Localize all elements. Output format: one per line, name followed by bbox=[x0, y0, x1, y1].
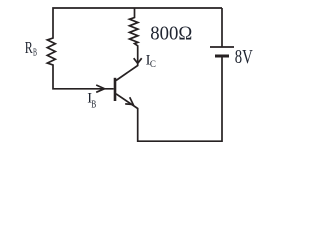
svg-text:R: R bbox=[25, 38, 33, 57]
svg-text:800Ω: 800Ω bbox=[150, 22, 192, 44]
svg-text:8V: 8V bbox=[235, 46, 253, 68]
svg-text:B: B bbox=[91, 100, 96, 111]
svg-text:B: B bbox=[33, 48, 37, 59]
svg-text:C: C bbox=[150, 59, 156, 69]
